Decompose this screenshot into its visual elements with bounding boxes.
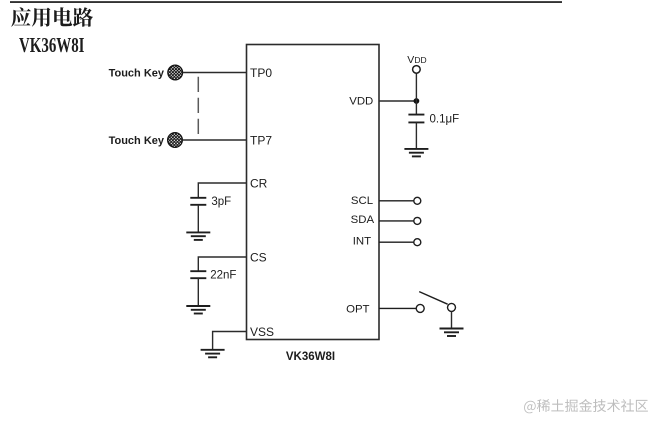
wire SCL [379, 200, 414, 202]
wire junction to C3 [415, 101, 417, 114]
wire TP7 [182, 139, 246, 141]
capacitor C1 3pF [190, 198, 206, 205]
svg-text:3pF: 3pF [211, 196, 231, 208]
VDD supply label [407, 54, 426, 66]
VDD supply terminal circle [413, 66, 421, 74]
svg-text:TP7: TP7 [250, 134, 272, 148]
ground under C3 [404, 149, 428, 157]
svg-text:0.1μF: 0.1μF [430, 113, 460, 125]
terminal INT [414, 239, 421, 246]
ground under C2 [186, 306, 210, 314]
ground VSS [201, 350, 225, 358]
wire junction to VDD terminal [415, 73, 417, 101]
ground under C1 [186, 232, 210, 240]
wire CR [198, 183, 246, 197]
wire C2 to ground [197, 278, 199, 306]
wire C1 to ground [197, 205, 199, 233]
capacitor C2 22nF [190, 271, 206, 278]
switch S1 pole circle [416, 304, 424, 312]
wire SDA [379, 220, 414, 222]
svg-text:OPT: OPT [346, 304, 369, 316]
wire VSS [213, 332, 247, 350]
touch key pad 2 [168, 133, 183, 148]
ground under switch [440, 329, 464, 337]
wire switch to ground [451, 311, 453, 328]
wire TP0 [183, 72, 247, 74]
svg-text:SCL: SCL [351, 195, 373, 207]
wire INT [379, 241, 414, 243]
svg-text:VK36W8I: VK36W8I [19, 35, 85, 57]
dashed expansion line between TP0 and TP7 [197, 77, 199, 140]
svg-text:SDA: SDA [351, 214, 375, 226]
title 应用电路 [11, 7, 93, 27]
IC U1 VK36W8I body [247, 45, 380, 340]
svg-text:22nF: 22nF [210, 269, 236, 281]
svg-text:CR: CR [250, 177, 268, 191]
svg-text:V: V [407, 54, 414, 66]
svg-text:VSS: VSS [250, 325, 274, 339]
wire OPT [379, 307, 416, 309]
watermark [524, 399, 648, 413]
capacitor C3 0.1uF [408, 115, 424, 123]
svg-text:Touch Key: Touch Key [109, 135, 165, 147]
top rule [10, 1, 562, 3]
wire CS [198, 257, 246, 271]
svg-text:INT: INT [353, 236, 371, 248]
wire C3 to ground [415, 122, 417, 148]
svg-text:Touch Key: Touch Key [109, 68, 165, 80]
terminal SCL [414, 197, 421, 204]
wire VDD pin to junction [379, 100, 416, 102]
svg-text:TP0: TP0 [250, 66, 272, 80]
svg-text:DD: DD [414, 55, 426, 65]
junction node VDD [414, 98, 420, 104]
touch key pad 1 [168, 65, 183, 80]
svg-text:CS: CS [250, 251, 267, 265]
switch S1 throw circle [448, 303, 456, 311]
terminal SDA [414, 217, 421, 224]
svg-text:VDD: VDD [349, 96, 373, 108]
svg-text:VK36W8I: VK36W8I [286, 351, 335, 363]
switch S1 lever [419, 292, 447, 305]
